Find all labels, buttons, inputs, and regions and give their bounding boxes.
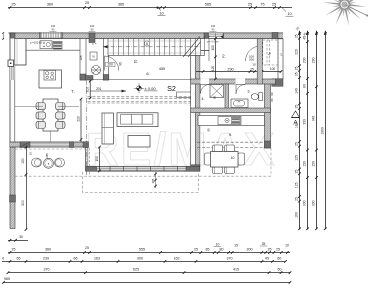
svg-text:200: 200	[249, 58, 254, 62]
svg-text:365: 365	[118, 3, 124, 7]
party wall bottom pier	[191, 165, 200, 171]
toilet	[259, 93, 263, 101]
svg-text:120: 120	[211, 66, 215, 72]
svg-text:35: 35	[295, 72, 299, 76]
stair number 8 circle	[144, 41, 149, 46]
window label wl1	[50, 24, 57, 31]
svg-text:300: 300	[137, 256, 143, 260]
tv board	[177, 92, 191, 98]
svg-text:455: 455	[159, 67, 165, 71]
svg-text:± 0.00: ± 0.00	[145, 86, 157, 91]
kitchen-hall wall	[80, 39, 86, 81]
svg-text:10: 10	[252, 63, 256, 67]
section dash line x86	[85, 80, 87, 176]
svg-text:290: 290	[227, 67, 233, 71]
svg-text:370: 370	[44, 267, 50, 271]
svg-text:3.: 3.	[247, 90, 250, 94]
svg-text:1090: 1090	[320, 127, 324, 135]
left wall window	[10, 64, 15, 80]
coffee table	[128, 136, 150, 148]
svg-text:75: 75	[260, 2, 264, 6]
room9 counter	[198, 116, 265, 126]
svg-text:A: A	[293, 120, 298, 127]
svg-text:162: 162	[174, 256, 180, 260]
svg-text:80: 80	[303, 84, 307, 88]
right dim chain A	[295, 30, 301, 230]
svg-text:300: 300	[21, 200, 25, 206]
bath door arc 1	[201, 85, 210, 94]
sofa L left	[102, 113, 114, 144]
svg-text:125: 125	[295, 182, 299, 188]
svg-text:25: 25	[194, 247, 198, 251]
top wall pier room2 window	[204, 33, 209, 39]
svg-text:300: 300	[312, 200, 316, 206]
svg-text:160: 160	[295, 212, 299, 218]
svg-text:25: 25	[248, 2, 252, 6]
svg-text:25: 25	[295, 197, 299, 201]
terrace stool 2	[55, 158, 65, 167]
top wall window kitchen	[40, 33, 62, 39]
hall door label 200	[106, 62, 116, 66]
svg-text:385: 385	[45, 153, 49, 158]
svg-text:90: 90	[213, 96, 217, 100]
dining chairs	[36, 103, 65, 129]
top dimension line	[8, 7, 292, 9]
svg-text:10: 10	[29, 152, 33, 156]
techroom right wall	[104, 39, 109, 81]
svg-text:10: 10	[287, 12, 291, 16]
svg-text:60: 60	[278, 267, 282, 271]
svg-text:25: 25	[295, 142, 299, 146]
svg-text:95: 95	[207, 128, 211, 132]
kitchen-hall wall pier	[80, 74, 86, 80]
techroom right wall pier	[103, 75, 109, 81]
svg-text:25: 25	[11, 3, 15, 7]
svg-text:p =: p =	[93, 42, 97, 46]
window label wl3	[210, 24, 217, 31]
svg-text:965: 965	[4, 277, 10, 281]
dining axis line	[15, 105, 43, 107]
svg-text:80: 80	[220, 247, 224, 251]
outdoor chairs	[205, 145, 245, 174]
svg-text:25: 25	[268, 247, 272, 251]
top dimension ticks	[9, 6, 281, 9]
canopy dashed outline	[83, 172, 199, 192]
svg-text:290: 290	[312, 57, 316, 63]
bath bottom wall	[191, 108, 271, 113]
svg-text:25: 25	[272, 2, 276, 6]
svg-text:15: 15	[234, 243, 238, 247]
svg-text:220: 220	[76, 116, 80, 122]
bath door arc 2	[236, 85, 245, 94]
svg-text:45: 45	[265, 256, 269, 260]
bottom chain row1	[8, 252, 290, 254]
terrace table round	[44, 158, 54, 168]
beam dashed lines	[88, 97, 191, 103]
top wall pier corner NW	[10, 33, 15, 40]
room2 door arc	[246, 46, 261, 61]
svg-text:360: 360	[47, 3, 53, 7]
kitchen hob	[44, 70, 56, 80]
room2 closet wall	[257, 39, 262, 85]
party wall inner leaf	[191, 56, 196, 172]
svg-text:80: 80	[270, 98, 274, 102]
dining bottom wall pier 2	[70, 142, 74, 148]
svg-text:60: 60	[277, 256, 281, 260]
kitchen island	[39, 70, 62, 88]
svg-text:65: 65	[17, 256, 21, 260]
svg-text:25: 25	[85, 1, 89, 5]
svg-text:625: 625	[133, 267, 139, 271]
top wall pier hall	[89, 33, 95, 43]
room2 dim line	[215, 38, 217, 80]
svg-text:201: 201	[96, 87, 102, 91]
svg-text:239: 239	[43, 256, 49, 260]
svg-text:7.: 7.	[71, 89, 75, 94]
dining bottom wall pier 1	[20, 142, 30, 148]
svg-text:200: 200	[247, 247, 253, 251]
sofa main	[117, 113, 158, 127]
svg-text:150: 150	[303, 161, 307, 167]
svg-text:163: 163	[94, 256, 100, 260]
terrace stool 1	[32, 158, 42, 167]
south wall center dim	[151, 172, 157, 188]
left terrace wall pier	[10, 195, 16, 202]
svg-text:565: 565	[205, 3, 211, 7]
section marker A	[292, 111, 300, 127]
terrace dashed boundary	[15, 148, 271, 176]
bath mid wall	[225, 84, 229, 109]
svg-text:25: 25	[295, 105, 299, 109]
left terrace wall	[10, 147, 15, 229]
washing machine	[90, 52, 97, 60]
top wall band	[10, 33, 283, 39]
svg-text:25: 25	[276, 247, 280, 251]
party wall top leaf	[195, 39, 200, 56]
outdoor table	[211, 152, 239, 168]
hall door arc 1	[104, 56, 119, 71]
room9 roof dash lines	[197, 142, 265, 147]
room9 bbq stripes	[232, 117, 241, 124]
svg-text:25: 25	[295, 34, 299, 38]
svg-text:10: 10	[216, 243, 220, 247]
svg-text:200: 200	[303, 57, 307, 63]
svg-text:100: 100	[211, 45, 215, 51]
hall-living boundary line	[86, 79, 191, 81]
bath vanity	[231, 99, 248, 108]
svg-text:10: 10	[159, 11, 163, 15]
bottom chain row3	[8, 272, 291, 274]
electrical panel	[8, 60, 14, 67]
room2 dim line H	[196, 71, 282, 73]
north star	[323, 0, 369, 26]
svg-text:555: 555	[139, 247, 145, 251]
dining bottom wall pier 3	[83, 142, 89, 148]
right dim chain C	[312, 30, 318, 230]
svg-text:195: 195	[79, 55, 83, 60]
svg-text:150: 150	[95, 156, 99, 162]
left dim line	[26, 147, 28, 230]
top dim leader 10 right	[282, 8, 294, 17]
right outer wall upper	[278, 39, 283, 79]
right dim chain D	[320, 30, 326, 230]
svg-text:220: 220	[295, 49, 299, 55]
living south glass wall	[97, 167, 187, 171]
svg-text:9.: 9.	[229, 132, 232, 137]
left wall	[10, 39, 15, 148]
svg-text:10: 10	[285, 243, 289, 247]
bath top wall door gap 1	[201, 79, 210, 85]
living west glass wall	[85, 147, 87, 171]
svg-text:p = 0.0um: p = 0.0um	[207, 39, 219, 43]
boiler circle	[92, 66, 101, 75]
terrace dash line x89	[89, 148, 91, 176]
dining bottom wall	[10, 142, 89, 147]
right wall step	[272, 79, 283, 87]
svg-text:385: 385	[151, 178, 155, 183]
stair break line	[183, 37, 200, 58]
svg-text:2.: 2.	[222, 54, 226, 59]
kitchen sink	[40, 41, 52, 49]
svg-text:10.: 10.	[231, 156, 236, 160]
left dim 30	[8, 240, 28, 242]
svg-text:90: 90	[119, 62, 123, 66]
svg-text:125: 125	[295, 155, 299, 161]
living south wall pier W	[86, 166, 97, 171]
bath top wall door gap 2	[236, 79, 246, 85]
svg-text:4.: 4.	[201, 97, 204, 101]
top dim leader 10 left	[156, 7, 165, 16]
bath top wall	[191, 79, 276, 84]
living south wall pier E	[186, 166, 200, 171]
svg-text:345: 345	[312, 116, 316, 122]
party wall outer leaf	[195, 56, 200, 167]
kitchen stove stripes	[53, 41, 62, 49]
dining table	[43, 99, 58, 131]
svg-text:200: 200	[108, 63, 114, 67]
svg-text:370: 370	[227, 256, 233, 260]
level marker living	[134, 83, 144, 93]
room2 niche	[201, 39, 210, 51]
bottom chain row2	[2, 261, 286, 263]
svg-text:350: 350	[303, 119, 307, 125]
dining dim line upper	[89, 80, 91, 99]
top wall pier NE	[272, 33, 278, 39]
svg-text:300: 300	[303, 200, 307, 206]
svg-text:25: 25	[85, 246, 89, 250]
dining dim line lower	[80, 99, 82, 142]
bottom chain row4	[3, 282, 290, 284]
hall boundary pier	[86, 76, 94, 81]
svg-text:6.: 6.	[146, 71, 149, 76]
svg-text:100: 100	[270, 67, 276, 71]
living dim 150	[99, 147, 101, 171]
stair walk line	[103, 46, 201, 48]
room9 east wall pier	[265, 141, 271, 148]
dim 201 line	[90, 90, 126, 92]
svg-text:150: 150	[21, 158, 25, 164]
svg-text:85: 85	[206, 247, 210, 251]
svg-text:p =150,85: p =150,85	[30, 40, 43, 44]
svg-text:35: 35	[262, 242, 266, 246]
staircase	[108, 39, 205, 56]
svg-text:150: 150	[312, 161, 316, 167]
svg-text:90: 90	[270, 92, 274, 96]
svg-text:1.: 1.	[280, 53, 283, 57]
window label wl2	[89, 24, 96, 31]
svg-text:140: 140	[295, 88, 299, 94]
right dim chain B	[303, 30, 309, 230]
svg-text:30: 30	[19, 235, 23, 239]
svg-text:10: 10	[134, 60, 138, 64]
svg-text:66: 66	[74, 256, 78, 260]
kitchen counter edge	[26, 49, 80, 51]
svg-text:8: 8	[146, 42, 148, 46]
svg-text:S2: S2	[167, 84, 176, 93]
svg-text:25: 25	[12, 247, 16, 251]
svg-text:0: 0	[2, 256, 4, 260]
room9 east wall	[265, 81, 271, 148]
top wall window room2	[207, 33, 223, 38]
dining bottom wall window	[30, 143, 70, 147]
kitchen tall cabinet	[15, 39, 26, 66]
svg-text:415: 415	[233, 267, 239, 271]
svg-text:25: 25	[295, 66, 299, 70]
shower box	[210, 85, 224, 98]
left edge mini chain	[2, 33, 4, 39]
svg-text:25: 25	[295, 170, 299, 174]
room2 wardrobe dashed	[263, 40, 278, 65]
svg-text:360: 360	[45, 247, 51, 251]
